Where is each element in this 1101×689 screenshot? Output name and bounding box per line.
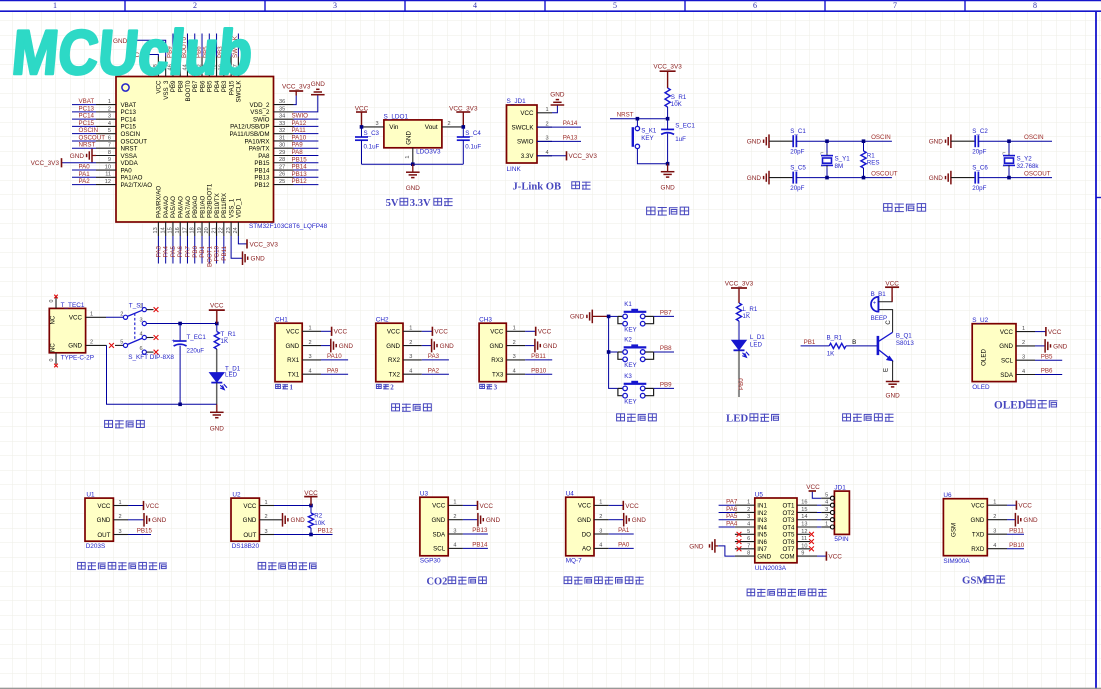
svg-text:VSS_2: VSS_2 bbox=[250, 109, 270, 116]
svg-text:GND: GND bbox=[70, 153, 85, 160]
svg-text:GSM: GSM bbox=[962, 575, 987, 587]
svg-text:GND: GND bbox=[543, 343, 558, 350]
stub to switch pin 5 bbox=[115, 344, 123, 346]
power VCC bbox=[525, 330, 536, 332]
svg-text:VDD_2: VDD_2 bbox=[250, 102, 271, 109]
U5 pin 11 OT6 bbox=[797, 541, 810, 543]
svg-text:LINK: LINK bbox=[507, 166, 522, 173]
svg-text:VSSA: VSSA bbox=[121, 153, 138, 160]
svg-text:VDD_1: VDD_1 bbox=[236, 197, 243, 218]
svg-text:OUT: OUT bbox=[243, 532, 256, 539]
svg-text:1: 1 bbox=[140, 304, 143, 310]
svg-text:PC14: PC14 bbox=[79, 113, 95, 120]
svg-text:PA10: PA10 bbox=[327, 353, 342, 360]
crystal S_Y1 8M bbox=[826, 141, 828, 153]
svg-text:IN5: IN5 bbox=[757, 532, 767, 539]
junction bbox=[360, 125, 364, 129]
ground bbox=[321, 345, 331, 347]
ground left of S_C6 bbox=[950, 171, 952, 185]
U3 pin 3 SDA bbox=[448, 533, 463, 535]
svg-text:OSCOUT: OSCOUT bbox=[871, 170, 898, 177]
svg-text:26: 26 bbox=[279, 172, 285, 178]
svg-text:20pF: 20pF bbox=[972, 149, 986, 156]
svg-text:+: + bbox=[172, 338, 176, 345]
svg-text:S_KFT DIP-8X8: S_KFT DIP-8X8 bbox=[128, 354, 174, 361]
svg-text:GND: GND bbox=[929, 175, 944, 182]
svg-text:VSS_1: VSS_1 bbox=[228, 198, 235, 218]
svg-text:RX2: RX2 bbox=[388, 357, 401, 364]
MCU pin 9 VDDA bbox=[96, 162, 116, 164]
wire / net label PA2 bbox=[72, 184, 96, 186]
wire / net label PA10 bbox=[294, 140, 319, 142]
svg-text:SGP30: SGP30 bbox=[420, 558, 441, 565]
title stepper motor bbox=[747, 589, 755, 596]
svg-text:5PIN: 5PIN bbox=[834, 536, 849, 543]
svg-text:2: 2 bbox=[119, 514, 122, 520]
svg-text:14: 14 bbox=[801, 514, 807, 520]
LED T_D1 bbox=[210, 373, 224, 383]
svg-text:1: 1 bbox=[513, 326, 516, 332]
MCU pin 25 PB12 bbox=[274, 184, 294, 186]
U2 pin 1 VCC bbox=[259, 505, 274, 507]
junction bbox=[462, 125, 466, 129]
svg-text:VCC: VCC bbox=[69, 315, 83, 322]
svg-text:PA0: PA0 bbox=[121, 167, 133, 174]
svg-text:GND: GND bbox=[210, 425, 225, 432]
TEC1 pin 1 VCC wire to switch bbox=[86, 316, 106, 318]
wires OT1-OT4 to JD1 bbox=[817, 504, 821, 506]
svg-text:1: 1 bbox=[747, 500, 750, 506]
svg-text:GND: GND bbox=[570, 314, 585, 321]
connector CH1 body bbox=[275, 323, 302, 382]
wire / net label PC14 bbox=[72, 118, 96, 120]
MCU U? STM32F103C8T6 LQFP48 body bbox=[116, 77, 274, 223]
svg-text:PB11/RX: PB11/RX bbox=[221, 193, 228, 218]
wire VCC to pin 48 bbox=[147, 55, 159, 57]
MCU pin 45 PB8 bbox=[179, 57, 181, 77]
svg-text:0.1uF: 0.1uF bbox=[364, 143, 380, 150]
MCU pin 37 SWCLK bbox=[237, 57, 239, 77]
svg-text:IN2: IN2 bbox=[757, 510, 767, 517]
MCU pin 24 VDD_1 bbox=[237, 222, 239, 236]
svg-text:RX1: RX1 bbox=[287, 357, 300, 364]
svg-text:3: 3 bbox=[333, 1, 337, 10]
wire / net label PB15 bbox=[128, 534, 151, 536]
sheet top border and ruler bbox=[0, 0, 1101, 2]
svg-text:VBAT: VBAT bbox=[79, 98, 95, 105]
junction bbox=[178, 322, 182, 326]
wire / net label PA0 bbox=[72, 169, 96, 171]
svg-text:13: 13 bbox=[153, 227, 159, 233]
svg-text:KEY: KEY bbox=[624, 399, 636, 406]
svg-text:PA1: PA1 bbox=[79, 171, 91, 178]
ground bbox=[128, 519, 144, 521]
svg-text:VCC_3V3: VCC_3V3 bbox=[653, 64, 682, 71]
wire / net label NRST bbox=[72, 147, 96, 149]
MCU pin 46 PB9 bbox=[172, 57, 174, 77]
svg-text:+: + bbox=[873, 300, 876, 306]
U4 pin 4 AO bbox=[594, 547, 609, 549]
svg-text:R2: R2 bbox=[314, 513, 322, 520]
resistor B_R1 1K bbox=[829, 343, 846, 348]
svg-text:IN4: IN4 bbox=[757, 524, 767, 531]
svg-text:PB12: PB12 bbox=[292, 178, 308, 185]
svg-text:OT2: OT2 bbox=[782, 510, 795, 517]
svg-text:OLED: OLED bbox=[981, 349, 988, 366]
junction bbox=[411, 162, 415, 166]
buzzer B_B1 BEEP bbox=[871, 297, 878, 312]
svg-text:CH2: CH2 bbox=[376, 317, 389, 324]
svg-text:3: 3 bbox=[265, 529, 268, 535]
ground bbox=[274, 519, 283, 521]
power VCC bbox=[1035, 331, 1046, 333]
MCU pin 3 PC14 bbox=[96, 118, 116, 120]
wire / net label PB7 bbox=[194, 34, 196, 57]
svg-text:20: 20 bbox=[204, 227, 210, 233]
pin 1 GND of LDO bbox=[412, 148, 414, 164]
power VCC bbox=[422, 330, 433, 332]
wire buzzer to VCC bbox=[878, 297, 892, 302]
svg-text:0.1uF: 0.1uF bbox=[465, 143, 481, 150]
svg-text:U3: U3 bbox=[420, 491, 429, 498]
svg-text:2: 2 bbox=[390, 383, 394, 391]
svg-text:PA12/USB/DP: PA12/USB/DP bbox=[230, 124, 269, 131]
svg-text:4: 4 bbox=[453, 543, 456, 549]
svg-text:RES: RES bbox=[867, 160, 880, 167]
TEC1 pin 2 GND wire bbox=[86, 344, 107, 346]
svg-text:1: 1 bbox=[409, 326, 412, 332]
svg-text:IN3: IN3 bbox=[757, 517, 767, 524]
wire / net label PA6 bbox=[719, 511, 735, 513]
wire / net label PA4 bbox=[719, 526, 735, 528]
svg-text:PB10: PB10 bbox=[214, 245, 221, 261]
svg-text:OT4: OT4 bbox=[782, 524, 795, 531]
U4 pin 1 VCC bbox=[594, 504, 609, 506]
connector pin 3 SWIO bbox=[537, 140, 552, 142]
U1 pin 1 VCC bbox=[113, 505, 128, 507]
wire / net label PB12 bbox=[274, 534, 333, 536]
svg-text:BOOT1: BOOT1 bbox=[206, 245, 213, 267]
wire VSS_1 to GND bbox=[231, 236, 242, 258]
wire / net label PB14 bbox=[463, 547, 488, 549]
svg-text:1: 1 bbox=[825, 521, 828, 527]
svg-text:4: 4 bbox=[473, 1, 477, 10]
svg-text:VDDA: VDDA bbox=[121, 160, 139, 167]
svg-text:3: 3 bbox=[453, 528, 456, 534]
svg-text:T_TEC1: T_TEC1 bbox=[61, 302, 85, 309]
svg-text:VCC_3V3: VCC_3V3 bbox=[725, 281, 754, 288]
MCU pin 33 PA12/USB/DP bbox=[274, 125, 294, 127]
svg-text:PB2/BOOT1: PB2/BOOT1 bbox=[207, 183, 214, 218]
svg-text:PA8: PA8 bbox=[258, 153, 270, 160]
svg-text:NRST: NRST bbox=[79, 142, 96, 149]
junction bbox=[309, 504, 313, 508]
wire / net label PB15 bbox=[294, 162, 319, 164]
svg-text:L_D1: L_D1 bbox=[750, 334, 765, 341]
svg-text:GND: GND bbox=[68, 343, 82, 350]
svg-text:14: 14 bbox=[160, 227, 166, 233]
wire VSS_2 to GND bbox=[294, 95, 318, 112]
svg-text:RX3: RX3 bbox=[491, 357, 504, 364]
svg-text:GND: GND bbox=[577, 517, 591, 524]
svg-text:4: 4 bbox=[140, 332, 143, 338]
junction bbox=[862, 139, 866, 143]
connector pin 2 SWCLK bbox=[537, 126, 552, 128]
svg-text:10K: 10K bbox=[314, 520, 326, 527]
svg-text:S_C6: S_C6 bbox=[972, 165, 988, 172]
ground bbox=[609, 519, 624, 521]
MCU pin 36 VDD_2 bbox=[274, 104, 294, 106]
wire switch pin 3 to VCC node bbox=[147, 323, 217, 325]
svg-text:1: 1 bbox=[108, 99, 111, 105]
wire / net label VBAT bbox=[72, 104, 96, 106]
JD1 pin 1 bbox=[830, 525, 834, 529]
MCU pin 23 VSS_1 bbox=[230, 222, 232, 236]
ground below transistor bbox=[886, 381, 900, 383]
svg-text:PB15: PB15 bbox=[292, 156, 308, 163]
wire / net label PA1 bbox=[72, 176, 96, 178]
capacitor T_EC1 220uF bbox=[179, 324, 181, 342]
connector T_TEC1 TYPE-C-2P body bbox=[49, 308, 85, 352]
wire / net label SWIO bbox=[294, 118, 319, 120]
wire / net label NRST bbox=[610, 118, 668, 120]
pin 2 Vout bbox=[442, 126, 463, 128]
switch S_K1 KEY bbox=[635, 126, 639, 130]
svg-text:PA8: PA8 bbox=[292, 149, 304, 156]
resistor R1 RES bbox=[863, 141, 865, 151]
svg-text:1: 1 bbox=[453, 500, 456, 506]
svg-text:GND: GND bbox=[486, 517, 501, 524]
junction bbox=[636, 117, 640, 121]
title PIR sensor module bbox=[78, 562, 86, 569]
svg-text:PA2/TX/AO: PA2/TX/AO bbox=[121, 182, 153, 189]
junction bbox=[862, 176, 866, 180]
power VCC_3V3 right of MCU bbox=[295, 91, 297, 96]
svg-text:30: 30 bbox=[279, 143, 285, 149]
svg-text:PB14: PB14 bbox=[254, 167, 270, 174]
label 1 bbox=[276, 384, 281, 388]
connector CH2 body bbox=[376, 323, 403, 382]
wire / net label PA11 bbox=[294, 133, 319, 135]
wire / net label PA5 bbox=[719, 519, 735, 521]
svg-text:5: 5 bbox=[825, 493, 828, 499]
svg-text:VCC: VCC bbox=[538, 329, 552, 336]
svg-text:SWCLK: SWCLK bbox=[511, 124, 534, 131]
svg-text:24: 24 bbox=[233, 227, 239, 233]
svg-text:TXD: TXD bbox=[972, 532, 985, 539]
svg-text:GND: GND bbox=[660, 185, 675, 192]
svg-text:1: 1 bbox=[993, 500, 996, 506]
OLED pin 1 VCC bbox=[1016, 331, 1035, 333]
no-connect marks IN5-IN7 bbox=[737, 532, 742, 537]
svg-text:PA10: PA10 bbox=[292, 134, 307, 141]
svg-text:3: 3 bbox=[376, 121, 379, 127]
U2 pin 2 GND bbox=[259, 519, 274, 521]
title power circuit bbox=[105, 420, 113, 427]
svg-text:VCC: VCC bbox=[490, 329, 504, 336]
svg-text:5: 5 bbox=[108, 128, 111, 134]
MCU pin-1 indicator circle bbox=[122, 84, 129, 91]
svg-text:11: 11 bbox=[105, 172, 111, 178]
wire C4 to ground rail bbox=[462, 140, 464, 164]
svg-text:25: 25 bbox=[279, 179, 285, 185]
svg-text:GND: GND bbox=[311, 81, 326, 88]
connector pin 1 VCC bbox=[537, 112, 552, 114]
power VCC_3V3 at MCU VDDA pin 9 bbox=[62, 162, 97, 164]
svg-text:D203S: D203S bbox=[86, 543, 106, 550]
MCU pin 32 PA11/USB/DM bbox=[274, 133, 294, 135]
title temperature sensor module bbox=[258, 562, 266, 569]
svg-text:2: 2 bbox=[265, 514, 268, 520]
wire / net label PB8 bbox=[179, 34, 181, 57]
svg-text:8M: 8M bbox=[835, 163, 844, 170]
ground rail wire bbox=[362, 163, 464, 165]
svg-text:10: 10 bbox=[105, 164, 111, 170]
MCU pin 35 VSS_2 bbox=[274, 111, 294, 113]
svg-text:GND: GND bbox=[440, 343, 455, 350]
key K1 bbox=[618, 315, 623, 317]
svg-text:VCC: VCC bbox=[97, 503, 111, 510]
svg-text:TX3: TX3 bbox=[492, 372, 504, 379]
display S_U2 OLED body bbox=[972, 324, 1016, 382]
svg-text:VCC: VCC bbox=[243, 503, 257, 510]
svg-text:PA11/USB/DM: PA11/USB/DM bbox=[230, 131, 270, 138]
JD1 pin 5 bbox=[830, 496, 834, 500]
svg-text:VCC_3V3: VCC_3V3 bbox=[569, 153, 598, 160]
svg-text:PA1: PA1 bbox=[618, 527, 630, 534]
svg-text:OT5: OT5 bbox=[782, 532, 795, 539]
svg-text:16: 16 bbox=[175, 227, 181, 233]
svg-text:3: 3 bbox=[119, 529, 122, 535]
svg-text:PB15: PB15 bbox=[254, 160, 270, 167]
junction bbox=[607, 315, 611, 319]
svg-text:VBAT: VBAT bbox=[121, 102, 137, 109]
svg-text:K2: K2 bbox=[624, 337, 632, 344]
wire / net label PA14 bbox=[537, 126, 581, 128]
wire R1 to base bbox=[846, 345, 877, 347]
U5 pin 13 OT4 bbox=[797, 526, 817, 528]
svg-text:PB15: PB15 bbox=[137, 528, 153, 535]
power VCC bbox=[128, 505, 144, 507]
wire collector bbox=[878, 310, 892, 333]
svg-text:PC15: PC15 bbox=[121, 124, 137, 131]
OLED pin 3 SCL bbox=[1016, 359, 1035, 361]
svg-text:K1: K1 bbox=[624, 301, 632, 308]
svg-text:2: 2 bbox=[513, 340, 516, 346]
MCU pin 11 PA1/AO bbox=[96, 176, 116, 178]
title buzzer circuit bbox=[843, 414, 851, 421]
junction bbox=[1007, 139, 1011, 143]
U5 pin 5 IN5 bbox=[735, 533, 755, 535]
svg-text:PA14: PA14 bbox=[563, 120, 578, 127]
svg-text:S_JD1: S_JD1 bbox=[507, 98, 527, 105]
ground above MCU right bbox=[311, 94, 325, 96]
ground below LED bbox=[216, 404, 218, 412]
svg-text:T_EC1: T_EC1 bbox=[187, 334, 207, 341]
wire EC1 to ground bbox=[667, 134, 669, 164]
net label PB1 wire bbox=[801, 345, 830, 347]
svg-text:11: 11 bbox=[801, 536, 807, 542]
svg-text:PB12: PB12 bbox=[254, 182, 270, 189]
svg-text:PA7/AO: PA7/AO bbox=[185, 196, 192, 218]
svg-text:S_C4: S_C4 bbox=[465, 130, 481, 137]
svg-text:3.3V: 3.3V bbox=[521, 153, 535, 160]
svg-text:PA7: PA7 bbox=[726, 499, 738, 506]
OLED pin 2 GND bbox=[1016, 345, 1035, 347]
MCU pin 21 PB10/TX bbox=[216, 222, 218, 236]
MCU pin 40 PB4 bbox=[216, 57, 218, 77]
svg-text:VCC: VCC bbox=[334, 329, 348, 336]
junction bbox=[309, 533, 313, 537]
svg-text:VCC_3V3: VCC_3V3 bbox=[250, 241, 279, 248]
svg-text:PC14: PC14 bbox=[121, 116, 137, 123]
svg-text:OLED: OLED bbox=[972, 384, 990, 391]
wire / net label PB10 bbox=[1007, 548, 1024, 550]
wire GND down to bottom rail bbox=[107, 345, 217, 404]
wire / net label PB0 bbox=[194, 236, 196, 264]
svg-text:CO2: CO2 bbox=[427, 576, 448, 587]
resistor T_R1 1K bbox=[216, 324, 218, 332]
svg-text:20pF: 20pF bbox=[790, 149, 804, 156]
svg-text:PB8: PB8 bbox=[660, 345, 672, 352]
svg-text:3: 3 bbox=[513, 354, 516, 360]
svg-text:2: 2 bbox=[120, 312, 123, 318]
svg-text:21: 21 bbox=[211, 227, 217, 233]
svg-text:2: 2 bbox=[448, 121, 451, 127]
svg-text:SCL: SCL bbox=[1001, 358, 1014, 365]
svg-text:STM32F103C8T6_LQFP48: STM32F103C8T6_LQFP48 bbox=[249, 223, 328, 230]
JD1 pin 2 bbox=[830, 518, 834, 522]
wire / net label PB6 bbox=[1035, 374, 1062, 376]
wire VCC pin to GND bbox=[552, 105, 557, 113]
svg-text:2: 2 bbox=[193, 1, 197, 10]
svg-text:OSCOUT: OSCOUT bbox=[79, 134, 106, 141]
wire OSCIN bbox=[978, 140, 1052, 142]
svg-text:SWIO: SWIO bbox=[292, 113, 309, 120]
svg-text:GND: GND bbox=[550, 92, 565, 99]
wire to K2 bbox=[609, 351, 618, 353]
svg-text:10: 10 bbox=[801, 543, 807, 549]
svg-text:2: 2 bbox=[1022, 340, 1025, 346]
svg-text:GND: GND bbox=[97, 517, 111, 524]
capacitor S_EC1 1uF bbox=[661, 128, 674, 130]
ground bbox=[525, 345, 535, 347]
svg-text:PB10/TX: PB10/TX bbox=[214, 193, 221, 218]
U5 pin 1 IN1 bbox=[735, 504, 755, 506]
svg-text:PB1: PB1 bbox=[199, 245, 206, 257]
svg-text:16: 16 bbox=[801, 500, 807, 506]
OLED pin 4 SDA bbox=[1016, 374, 1035, 376]
MCU pin 42 PB6 bbox=[201, 57, 203, 77]
ground at MCU VSSA pin 8 bbox=[92, 154, 96, 156]
MCU pin 16 PA6/AO bbox=[179, 222, 181, 236]
label 2 bbox=[376, 384, 381, 388]
svg-text:PA6: PA6 bbox=[177, 245, 184, 257]
svg-text:19: 19 bbox=[197, 227, 203, 233]
MCU pin 34 SWIO bbox=[274, 118, 294, 120]
svg-text:B: B bbox=[852, 339, 856, 346]
svg-text:PB0/AO: PB0/AO bbox=[192, 195, 199, 218]
svg-text:4: 4 bbox=[825, 500, 828, 506]
svg-text:2: 2 bbox=[90, 340, 93, 346]
svg-text:1: 1 bbox=[53, 1, 57, 10]
wire / net label PB1 bbox=[201, 236, 203, 264]
key K2 bbox=[618, 351, 623, 353]
ground bbox=[463, 519, 478, 521]
wire LED to bottom rail bbox=[216, 383, 218, 405]
svg-text:OT1: OT1 bbox=[782, 503, 795, 510]
svg-text:35: 35 bbox=[279, 106, 285, 112]
